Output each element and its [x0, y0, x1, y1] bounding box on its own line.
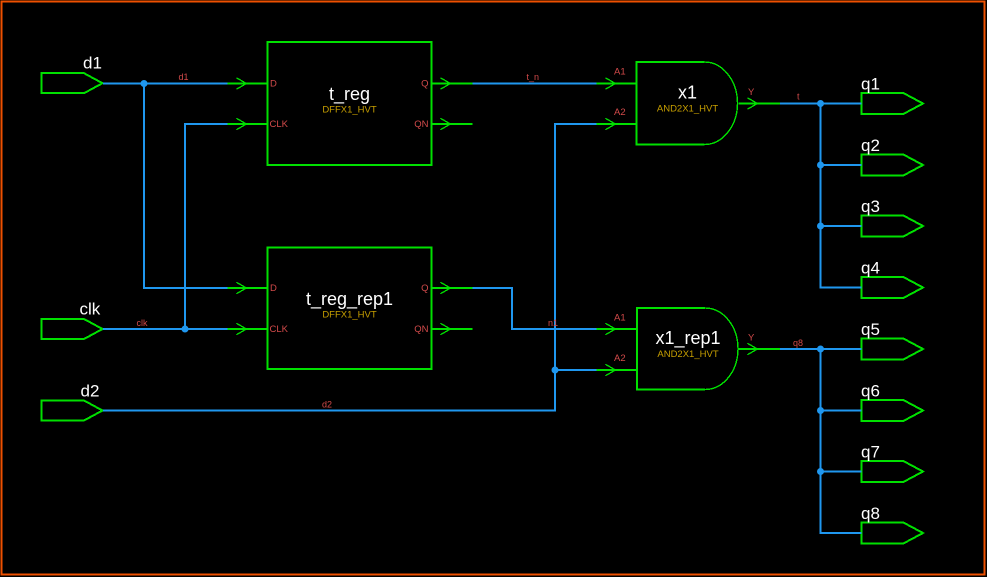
pin lead CLK (t_reg): [228, 118, 268, 129]
svg-text:D: D: [270, 79, 277, 90]
svg-text:CLK: CLK: [270, 119, 289, 130]
wire net d1 branch to t_reg_rep1 D: [144, 84, 228, 289]
svg-text:Y: Y: [748, 333, 755, 344]
pin lead Y (x1): [738, 98, 780, 109]
svg-text:Q: Q: [421, 283, 428, 294]
svg-text:q5: q5: [861, 320, 880, 339]
output port q2: [862, 155, 924, 176]
svg-text:clk: clk: [80, 300, 101, 319]
junction net t at q1: [817, 100, 824, 107]
wire net d2 branch to x1_rep1 A2: [555, 369, 597, 371]
svg-text:n1: n1: [548, 318, 558, 328]
wire net t : x1 Y to output trunk q1-q4: [780, 104, 862, 288]
output port q7: [862, 461, 924, 482]
junction net t at q2: [817, 162, 824, 169]
wire net d1 : port to t_reg D: [103, 83, 228, 85]
output port q1: [862, 93, 924, 114]
svg-text:t_reg_rep1: t_reg_rep1: [306, 289, 393, 310]
svg-text:A1: A1: [614, 313, 626, 324]
pin lead Y (x1_rep1): [739, 343, 780, 354]
svg-text:DFFX1_HVT: DFFX1_HVT: [322, 310, 377, 321]
input port clk: [42, 319, 103, 339]
svg-text:x1: x1: [678, 83, 697, 103]
svg-text:q1: q1: [861, 74, 880, 93]
svg-text:t_n: t_n: [527, 72, 540, 82]
svg-text:d2: d2: [81, 382, 100, 401]
junction net q8 at q7: [817, 468, 824, 475]
pin lead D (t_reg): [228, 78, 268, 89]
junction net d2: [552, 367, 559, 374]
output port q5: [862, 339, 924, 360]
pin lead A2 (x1_rep1): [597, 364, 638, 375]
pin lead QN (t_reg) unconnected stub: [432, 118, 473, 129]
junction net clk: [182, 326, 189, 333]
pin lead Q (t_reg): [432, 78, 473, 89]
pin lead D (t_reg_rep1): [228, 282, 268, 293]
DFF t_reg: [268, 42, 432, 165]
DFF t_reg_rep1: [268, 248, 432, 370]
svg-text:d1: d1: [83, 54, 102, 73]
wire net t_n : t_reg Q to x1 A1: [473, 83, 597, 85]
pin lead CLK (t_reg_rep1): [228, 323, 268, 334]
svg-text:q6: q6: [861, 381, 880, 400]
svg-text:AND2X1_HVT: AND2X1_HVT: [657, 104, 718, 115]
svg-text:clk: clk: [137, 318, 148, 328]
junction net q8 at q5: [817, 346, 824, 353]
pin lead QN (t_reg_rep1) unconnected stub: [432, 323, 473, 334]
svg-text:q3: q3: [861, 197, 880, 216]
svg-text:d1: d1: [179, 72, 189, 82]
AND gate x1_rep1: [637, 308, 738, 390]
svg-text:q7: q7: [861, 442, 880, 461]
svg-text:q2: q2: [861, 136, 880, 155]
svg-text:A2: A2: [614, 353, 626, 364]
pin lead Q (t_reg_rep1): [432, 282, 473, 293]
wire net clk : port to t_reg_rep1 CLK: [103, 328, 228, 330]
junction net t at q3: [817, 223, 824, 230]
svg-text:A2: A2: [614, 107, 626, 118]
svg-text:QN: QN: [414, 324, 428, 335]
wire net d2 : port to x1 A2: [103, 124, 597, 411]
AND gate x1: [637, 62, 738, 145]
pin lead A2 (x1): [597, 118, 637, 129]
svg-text:q8: q8: [861, 504, 880, 523]
wire net q8 : x1_rep1 Y to output trunk q5-q8: [780, 349, 862, 533]
junction net q8 at q6: [817, 407, 824, 414]
output port q4: [862, 277, 924, 298]
input port d1: [42, 73, 103, 93]
svg-text:d2: d2: [322, 400, 332, 410]
svg-text:DFFX1_HVT: DFFX1_HVT: [322, 105, 377, 116]
svg-text:Y: Y: [748, 87, 755, 98]
svg-text:CLK: CLK: [270, 324, 289, 335]
svg-text:q4: q4: [861, 258, 880, 277]
junction net d1: [141, 80, 148, 87]
wire net n1 : t_reg_rep1 Q to x1_rep1 A1: [473, 288, 597, 329]
input port d2: [42, 401, 103, 421]
pin lead A1 (x1): [597, 78, 637, 89]
output port q3: [862, 216, 924, 237]
pin lead A1 (x1_rep1): [597, 323, 638, 334]
svg-text:D: D: [270, 283, 277, 294]
svg-text:q8: q8: [793, 338, 803, 348]
svg-text:t_reg: t_reg: [329, 84, 370, 105]
output port q6: [862, 400, 924, 421]
output port q8: [862, 523, 924, 544]
svg-text:A1: A1: [614, 67, 626, 78]
svg-text:AND2X1_HVT: AND2X1_HVT: [657, 349, 718, 360]
svg-text:QN: QN: [414, 119, 428, 130]
svg-text:x1_rep1: x1_rep1: [655, 328, 720, 349]
svg-text:Q: Q: [421, 79, 428, 90]
wire net clk branch to t_reg CLK: [185, 124, 228, 329]
